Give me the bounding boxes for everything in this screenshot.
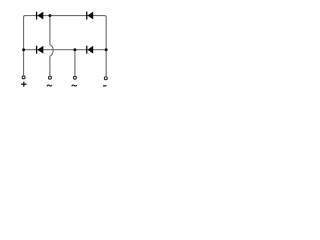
junction middle rail right	[105, 48, 108, 51]
diode D3 middle-left	[36, 46, 43, 54]
wire hop over middle rail	[50, 45, 53, 57]
wire AC2 drop from middle rail	[74, 50, 76, 76]
diode D4 middle-right	[86, 46, 93, 54]
junction top rail / AC1	[48, 14, 51, 17]
wire AC1 to terminal	[49, 57, 51, 76]
wire top rail and side frame wires	[24, 16, 107, 77]
node minus label	[103, 85, 107, 86]
node plus label	[21, 82, 26, 87]
terminal circle plus	[22, 76, 25, 79]
wire AC1 drop from top rail	[49, 16, 51, 45]
diode D1 top-left	[36, 12, 43, 20]
terminal circle AC1	[48, 76, 51, 79]
wire middle rail	[24, 49, 107, 51]
node AC2 tilde label	[72, 85, 77, 86]
junction middle rail left	[22, 48, 25, 51]
junction middle rail / AC2	[73, 48, 76, 51]
terminal circle minus	[104, 77, 107, 80]
node AC1 tilde label	[47, 85, 52, 86]
terminal circle AC2	[73, 76, 76, 79]
diode D2 top-right	[86, 12, 93, 20]
